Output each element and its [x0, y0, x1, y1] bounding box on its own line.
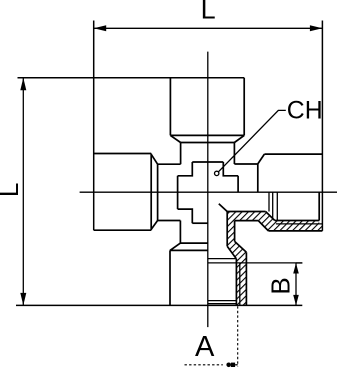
hex ring left vertical: [177, 176, 179, 209]
bottom port shoulder line (left half): [170, 249, 208, 251]
bottom port cone base line (left half): [180, 242, 207, 244]
left port cone base line: [157, 164, 159, 220]
right port cone chamfer bottom (section outer): [258, 221, 268, 231]
bottom port countersink circle 2: [208, 303, 237, 305]
top port top edge + left L extension line: [18, 77, 245, 79]
svg-text:L: L: [0, 183, 24, 197]
bottom port end face + extension line: [16, 304, 302, 306]
right arm bottom edge (section outer): [235, 220, 259, 222]
dimension line L top: [94, 27, 323, 29]
bottom port countersink circle 1: [208, 300, 237, 302]
right port thread step diagonal: [266, 212, 275, 221]
top port cone chamfer right: [234, 135, 244, 142]
vertical centerline: [207, 52, 209, 328]
bottom symbol square: [231, 363, 235, 367]
svg-text:A: A: [195, 331, 215, 363]
arrow L top right: [310, 25, 323, 31]
right port thread minor line: [275, 220, 319, 222]
right port right end face + top L extension line: [321, 21, 323, 231]
bottom port bore wall: [226, 212, 228, 247]
top port cone base line: [181, 142, 235, 144]
right port countersink edge: [318, 192, 320, 220]
top arm right edge: [233, 143, 235, 165]
right port thread start circle 2: [272, 192, 274, 218]
bottom arm left edge: [179, 221, 181, 244]
arrow B down: [293, 295, 299, 306]
left arm bottom edge: [158, 220, 181, 222]
right arm top edge: [234, 163, 257, 165]
bottom port thread start circle 1: [208, 258, 237, 260]
CH leader line: [218, 110, 285, 171]
left arm top edge: [158, 163, 181, 165]
hex ring top-right step: [223, 162, 238, 176]
hatch section material (cut wall of right and bottom ports): [227, 212, 322, 306]
svg-text:CH: CH: [287, 97, 323, 124]
bottom port cone chamfer left: [170, 243, 180, 250]
bottom port thread start line + B top extension: [208, 262, 303, 264]
svg-text:B: B: [266, 277, 296, 294]
bottom port thread step diagonal: [227, 246, 236, 259]
right port thread start circle 1: [268, 192, 270, 211]
top arm left edge: [180, 143, 182, 165]
dimension line B: [295, 263, 297, 305]
right port cone chamfer top: [258, 154, 265, 164]
CH leader circle: [215, 171, 219, 175]
left port left edge + top L extension line: [93, 21, 95, 231]
bottom symbol tick: [235, 364, 238, 366]
arrow L top left: [94, 25, 107, 31]
bottom symbol dot: [226, 363, 231, 368]
bottom port thread major line: [239, 263, 241, 306]
top port cone chamfer left: [170, 135, 180, 142]
left port boss: [94, 154, 152, 231]
left port cone chamfer top: [151, 154, 157, 164]
right port cone base line: [257, 164, 259, 192]
top port boss: [170, 78, 244, 136]
arrow L left up: [20, 78, 26, 91]
hex ring bottom horizontal: [192, 222, 207, 224]
hex ring right vertical: [237, 176, 239, 192]
left port cone chamfer bottom: [151, 221, 157, 230]
bottom arm right edge (section outer): [234, 221, 236, 242]
right port thread start circle 3: [276, 192, 278, 220]
hex ring bottom-left step: [178, 209, 193, 223]
right port bore wall: [227, 211, 265, 213]
bottom port thread minor line: [235, 259, 237, 306]
hex ring top horizontal: [192, 161, 223, 163]
arrow B up: [293, 263, 299, 274]
dashed horizontal line at bottom: [185, 364, 223, 366]
dashed vertical line below bottom port: [237, 306, 239, 366]
right port thread major line: [276, 223, 323, 225]
bottom port cone chamfer right (section outer): [235, 241, 247, 252]
dimension line L left: [22, 78, 24, 306]
bottom port boss left edge: [169, 250, 171, 305]
svg-text:L: L: [201, 0, 216, 24]
B top extension tail: [296, 262, 302, 264]
bottom port right edge (section outer): [245, 252, 247, 305]
hex ring top-left step: [178, 162, 193, 176]
bore corner chamfer diagonal: [219, 204, 227, 212]
right port bottom edge (section outer): [268, 230, 322, 232]
right port boss top edge: [264, 153, 322, 155]
arrow L left down: [20, 293, 26, 306]
horizontal centerline: [80, 191, 337, 193]
